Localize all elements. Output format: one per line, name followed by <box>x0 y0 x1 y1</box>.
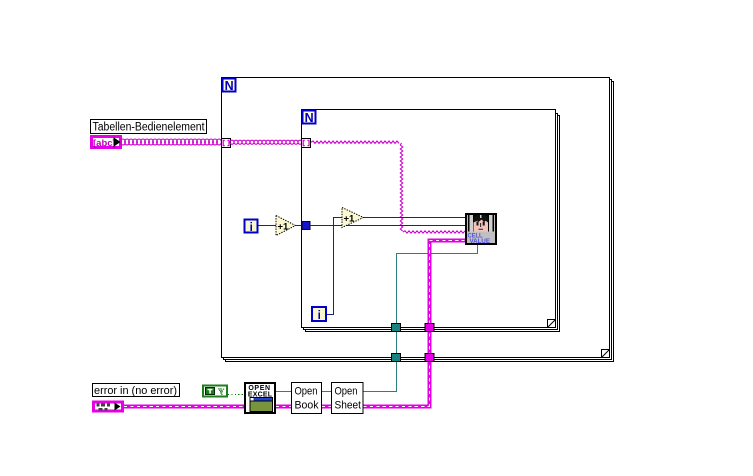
tunnel [] on outer loop <box>222 139 231 148</box>
svg-text:[abc]: [abc] <box>93 138 116 149</box>
wire: inner i up to +1 (inner) <box>327 218 342 315</box>
wire: inner +1 to CELL VALUE (row index) <box>364 217 466 219</box>
inner for-loop dog-ear <box>548 320 556 328</box>
tunnel (blue, I32) on inner loop left border <box>302 222 310 230</box>
svg-text:i: i <box>318 310 321 322</box>
outer for-loop dog-ear <box>602 350 610 358</box>
wire: i to +1 (outer) <box>259 225 277 227</box>
iteration terminal i (outer loop) <box>245 220 258 234</box>
svg-text:Sheet: Sheet <box>335 400 362 412</box>
Open Sheet node <box>332 383 364 414</box>
wire: teal OPEN EXCEL to Open Book <box>276 391 291 393</box>
count terminal N (inner loop) <box>303 111 316 125</box>
label: error in (no error) <box>93 384 180 398</box>
wire: 2D string array (chain pattern) from [abc] to outer tunnel <box>121 139 222 145</box>
wire: boolean dotted to OPEN EXCEL <box>228 394 244 396</box>
count terminal N (outer loop) <box>223 79 236 93</box>
wire: blue tunnel to CELL VALUE (column index) <box>310 225 465 227</box>
inner for-loop frame (stacked layers) <box>302 110 560 332</box>
label: Tabellen-Bedienelement <box>91 120 207 134</box>
Open Book node <box>292 383 322 414</box>
CELL VALUE VI node <box>466 214 496 245</box>
OPEN EXCEL VI node <box>245 383 275 413</box>
wire: teal refnum from Open Sheet up to CELL VALUE <box>364 245 478 392</box>
string array control terminal [abc] <box>92 137 121 150</box>
svg-text:Book: Book <box>295 400 319 412</box>
boolean constant TRUE <box>203 386 227 397</box>
error cluster control terminal <box>94 402 123 411</box>
svg-text:Tabellen-Bedienelement: Tabellen-Bedienelement <box>93 122 206 134</box>
tunnel (teal) on inner loop bottom <box>392 324 401 332</box>
svg-text:+1: +1 <box>344 213 356 224</box>
iteration terminal i (inner loop) <box>312 307 326 322</box>
svg-text:Open: Open <box>295 386 318 398</box>
tunnel [] on inner loop <box>302 139 311 148</box>
increment +1 node (inner) <box>342 208 364 228</box>
svg-text:VALUE: VALUE <box>470 238 491 245</box>
wire: +1 to blue tunnel <box>296 225 303 227</box>
tunnel (teal) on outer loop bottom <box>392 354 401 362</box>
increment +1 node (outer) <box>276 216 296 236</box>
tunnel (magenta) on outer loop bottom <box>425 354 434 362</box>
svg-text:error in (no error): error in (no error) <box>94 385 177 397</box>
svg-text:N: N <box>305 111 314 125</box>
wire: 1D string array (circle chain) between tunnels <box>230 140 302 144</box>
svg-text:i: i <box>250 222 253 234</box>
wire: teal Open Book to Open Sheet <box>322 391 331 393</box>
svg-text:Open: Open <box>335 386 358 398</box>
svg-text:+1: +1 <box>278 221 290 232</box>
svg-text:N: N <box>225 79 234 93</box>
outer for-loop frame (stacked layers) <box>222 78 614 362</box>
tunnel (magenta) on inner loop bottom <box>425 324 434 332</box>
wire: error cluster (magenta dashed) from error-in to CELL VALUE <box>124 241 465 409</box>
wire: scalar string zigzag to CELL VALUE <box>311 141 465 233</box>
